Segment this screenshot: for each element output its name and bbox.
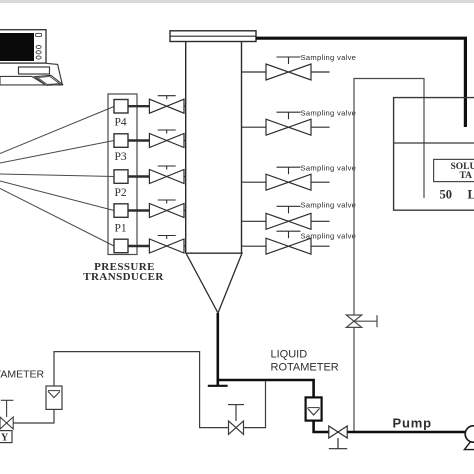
svg-text:P4: P4: [115, 117, 127, 129]
svg-text:Sampling valve: Sampling valve: [301, 232, 357, 241]
column cone: [186, 253, 242, 313]
svg-text:ROTAMETER: ROTAMETER: [271, 362, 339, 374]
bottom pipe from cone (thick): [217, 313, 220, 385]
transducer valve row 2: [128, 130, 186, 148]
svg-text:P2: P2: [115, 187, 127, 199]
pump line valve (handle down): [329, 426, 347, 449]
air injection valve (handle up): [228, 405, 244, 435]
air supply box: [0, 431, 12, 443]
svg-text:Sampling valve: Sampling valve: [301, 163, 357, 172]
svg-text:Sampling valve: Sampling valve: [301, 201, 357, 210]
tank label box: [434, 159, 474, 181]
fluidized bed column cap: [170, 31, 256, 42]
air rotameter: [46, 386, 62, 409]
solution tank: [394, 98, 474, 211]
svg-text:Pump: Pump: [393, 416, 432, 431]
return manifold line: [354, 79, 424, 432]
caption PRESSURE TRANSDUCER: [83, 261, 164, 283]
pump suction pipe (thick): [314, 421, 329, 432]
manifold valve (vertical, handle right): [346, 315, 377, 327]
tank 50 L text: [440, 188, 474, 202]
top gray border strip: [0, 0, 474, 3]
svg-text:Sampling valve: Sampling valve: [301, 53, 357, 62]
transducer valve row 5: [128, 236, 186, 254]
svg-text:P3: P3: [115, 151, 127, 163]
signal wires: transducers to computer: [0, 107, 114, 247]
air line loop to liquid line: [54, 352, 228, 428]
flange bar: [208, 385, 228, 387]
top outlet pipe (thick) to tank: [256, 38, 465, 127]
sampling valve row 2: [242, 112, 330, 135]
column walls: [186, 42, 242, 254]
svg-text:Li: Li: [468, 188, 474, 202]
svg-text:LIQUID: LIQUID: [271, 349, 308, 361]
svg-text:50: 50: [440, 188, 453, 202]
svg-text:ROTAMETER: ROTAMETER: [0, 369, 45, 381]
transducer valve row 4: [128, 200, 186, 218]
sampling valve row 1: [242, 57, 330, 80]
liquid line to rotameter (thick): [217, 380, 314, 397]
sampling valve row 5: [242, 231, 330, 254]
transducer squares P4..P1: [114, 100, 128, 253]
label LIQUID ROTAMETER: [271, 349, 339, 374]
sampling valve row 3: [242, 167, 330, 190]
air line to rotameter: [13, 410, 54, 423]
svg-text:TA: TA: [460, 171, 473, 181]
svg-text:P1: P1: [115, 223, 127, 235]
liquid rotameter: [306, 397, 322, 420]
computer desk: [0, 63, 62, 85]
svg-text:Sampling valve: Sampling valve: [301, 108, 357, 117]
sampling valve row 4: [242, 206, 330, 229]
pump: [464, 426, 474, 450]
computer keyboard: [0, 75, 62, 85]
computer monitor: [0, 30, 46, 63]
svg-text:Y: Y: [1, 433, 9, 444]
transducer valve row 1: [128, 96, 186, 114]
labels P4 P3 P2 P1: [115, 117, 127, 235]
transducer valve row 3: [128, 166, 186, 184]
svg-text:TRANSDUCER: TRANSDUCER: [83, 271, 164, 283]
air supply valve (handle up): [0, 400, 13, 429]
pressure transducer panel: [108, 94, 137, 255]
